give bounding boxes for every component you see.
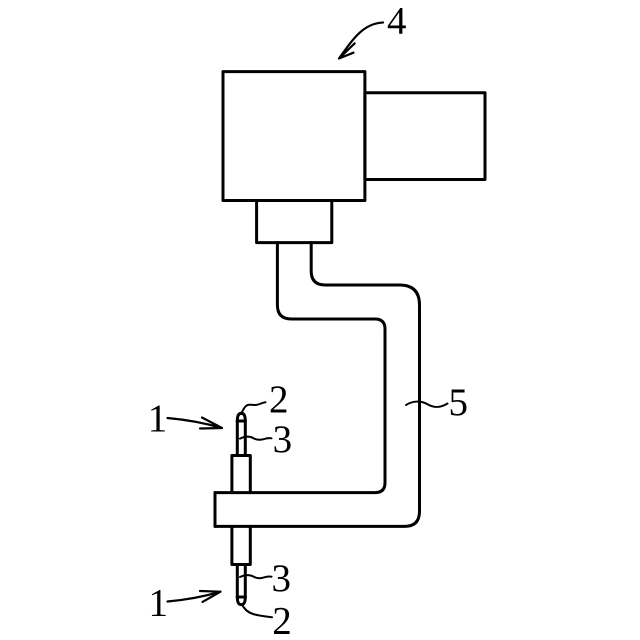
upper electrode holder <box>232 456 250 493</box>
upper electrode tip 2 <box>237 413 245 421</box>
upper electrode shaft 3 <box>237 421 245 456</box>
lower electrode tip 2 <box>237 597 245 605</box>
lead line 5 <box>406 402 448 407</box>
svg-text:1: 1 <box>148 397 168 440</box>
arrow to 1 bottom <box>168 591 221 602</box>
bar left end cap <box>214 493 217 527</box>
lead line 3 bottom <box>240 575 272 578</box>
arrow to 1 top <box>168 418 223 429</box>
neck block <box>257 201 332 243</box>
svg-text:1: 1 <box>148 582 168 625</box>
lower electrode shaft 3 <box>237 565 245 598</box>
lower tip separation line <box>237 596 245 599</box>
svg-text:5: 5 <box>448 381 468 424</box>
svg-text:3: 3 <box>273 418 293 461</box>
svg-text:4: 4 <box>387 0 407 43</box>
lead line 2 bottom <box>242 605 272 618</box>
lower electrode holder <box>232 526 250 564</box>
lead line 3 top <box>240 437 272 440</box>
side box <box>365 93 485 180</box>
arrow to 4 <box>339 23 383 59</box>
svg-text:3: 3 <box>271 557 291 600</box>
C-arm outer/lower line <box>215 243 385 493</box>
C-arm inner/upper line <box>215 243 420 527</box>
svg-text:2: 2 <box>269 378 289 421</box>
svg-text:2: 2 <box>272 599 292 640</box>
body box 4 <box>223 72 365 201</box>
upper tip separation line <box>237 420 245 423</box>
lead line 2 top <box>241 402 266 414</box>
